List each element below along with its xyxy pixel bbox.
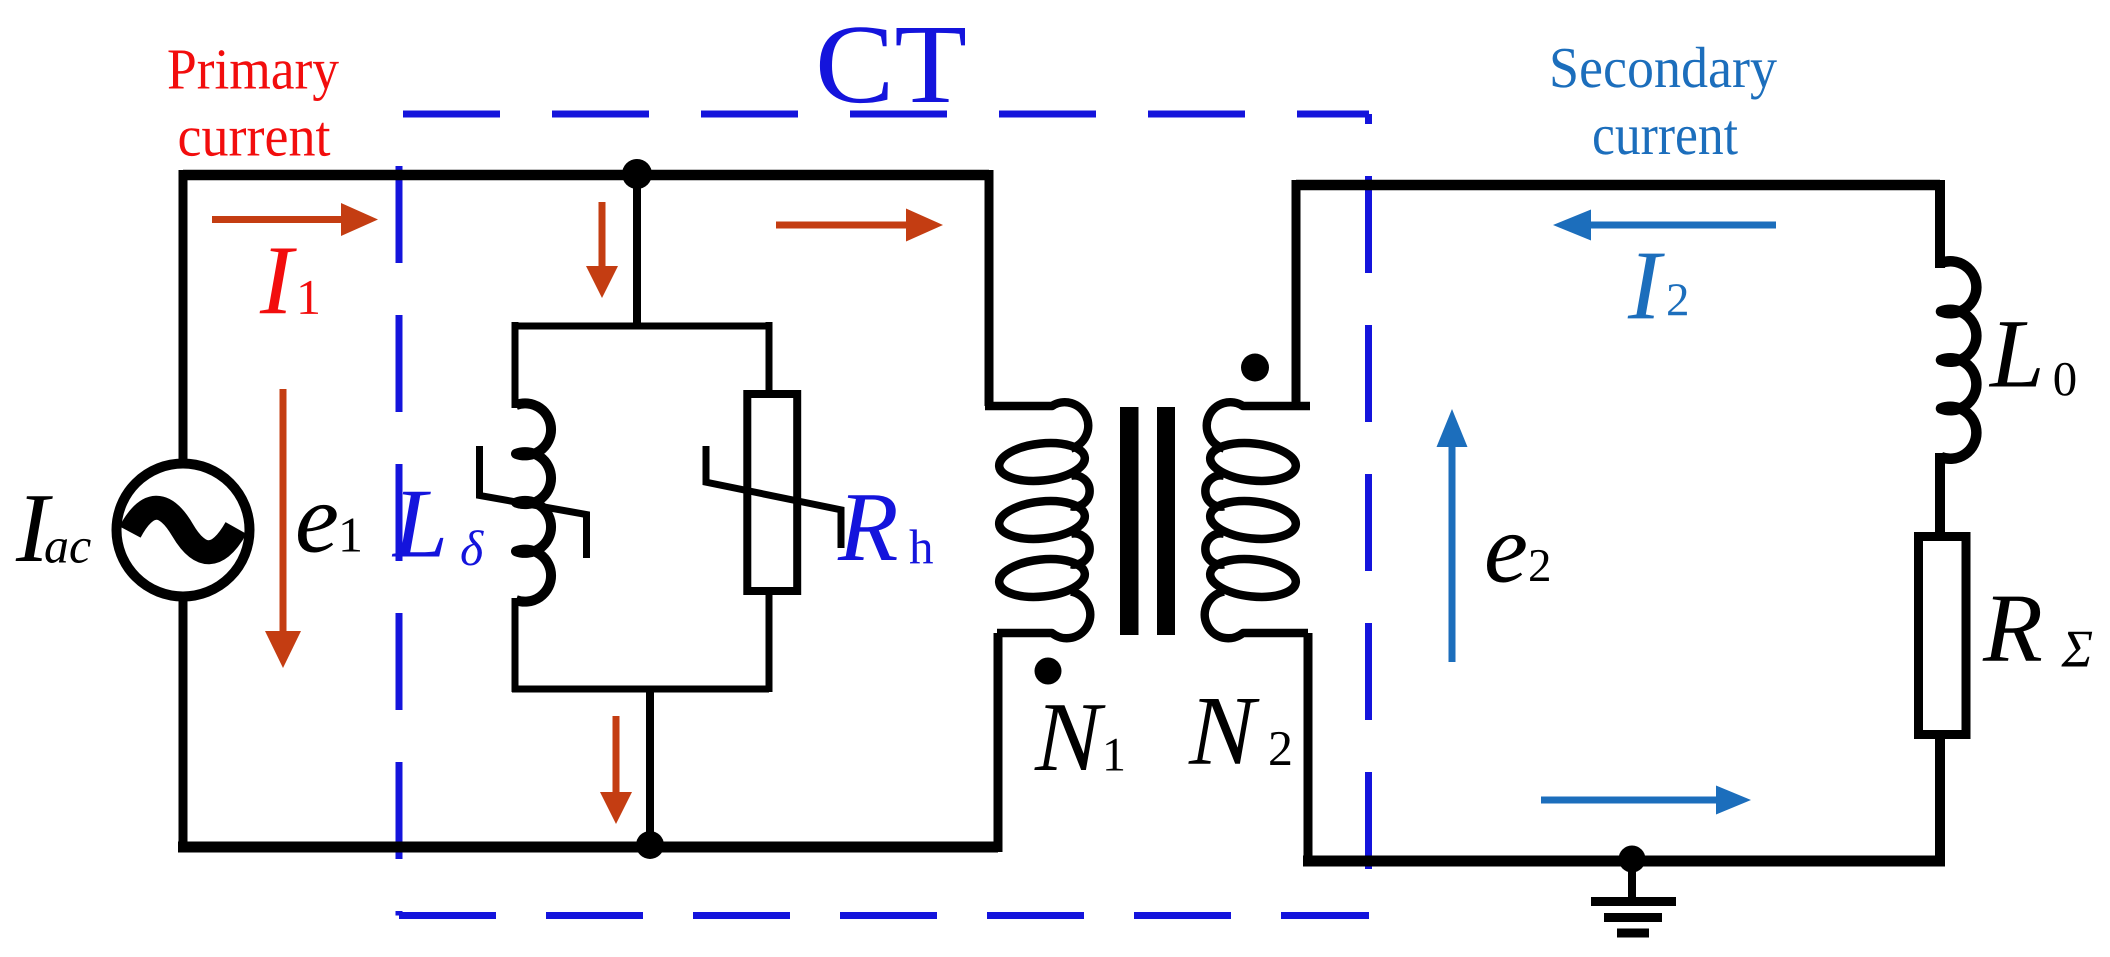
label N1 — [1034, 705, 1123, 770]
ground — [1591, 861, 1676, 933]
wire: primary left — [179, 170, 188, 852]
arrow I1 — [212, 203, 378, 236]
ground junction dot — [1619, 846, 1646, 873]
transformer core — [1120, 407, 1175, 635]
transformer primary winding N1 — [985, 402, 1090, 638]
wire: primary top — [183, 170, 989, 181]
magnetizing branch frame wires — [512, 322, 770, 692]
junction node (bottom) — [636, 831, 664, 859]
label e1 — [298, 505, 360, 553]
label Rh — [838, 495, 933, 563]
wire: secondary right lower leg — [1935, 735, 1945, 861]
wire: transformer primary bottom stem — [994, 633, 1003, 852]
arrow (branch top) — [586, 202, 618, 298]
polarity dot N1 — [1035, 658, 1062, 685]
label: CT — [820, 27, 965, 103]
arrow (top, toward transformer) — [776, 209, 943, 242]
arrow e1 — [265, 389, 301, 668]
label R-sigma — [1983, 597, 2093, 667]
wire: secondary top — [1296, 180, 1940, 191]
polarity dot N2 — [1241, 354, 1269, 382]
resistor R-sigma — [1919, 537, 1967, 735]
wire: transformer primary top stem — [985, 170, 994, 406]
inductor L0 — [1941, 261, 1976, 459]
arrow (branch bottom) — [600, 716, 632, 824]
nonlinear resistor Rh — [747, 394, 797, 591]
wire: branch stem top — [633, 175, 641, 326]
label: Primary current — [169, 50, 339, 156]
saturation mark on Ld — [480, 446, 587, 558]
arrow (secondary bottom) — [1541, 786, 1751, 815]
junction node (top) — [622, 159, 652, 189]
label N2 — [1188, 699, 1290, 765]
label e2 — [1487, 535, 1549, 583]
wire: secondary right upper leg — [1935, 180, 1945, 268]
wire: secondary bottom — [1303, 856, 1945, 867]
arrow e2 — [1437, 409, 1468, 662]
transformer secondary winding N2 — [1205, 402, 1310, 638]
wire: secondary right middle leg — [1935, 453, 1945, 536]
CT boundary dashed box — [399, 114, 1369, 916]
label Iac — [16, 496, 91, 563]
nonlinear inductor Ld coil — [516, 403, 551, 601]
label I1 — [260, 249, 318, 314]
wire: transformer secondary top stem — [1292, 180, 1301, 406]
label: Secondary current — [1553, 47, 1777, 155]
label L0 — [1989, 322, 2075, 396]
AC source Iac — [117, 464, 250, 597]
label Ld — [392, 492, 484, 566]
label I2 — [1628, 254, 1687, 319]
wire: branch stem bottom — [646, 689, 654, 852]
saturation mark on Rh — [706, 446, 841, 548]
wire: transformer secondary bottom stem — [1304, 633, 1313, 866]
arrow I2 — [1553, 210, 1776, 241]
wire: primary bottom — [178, 842, 998, 853]
